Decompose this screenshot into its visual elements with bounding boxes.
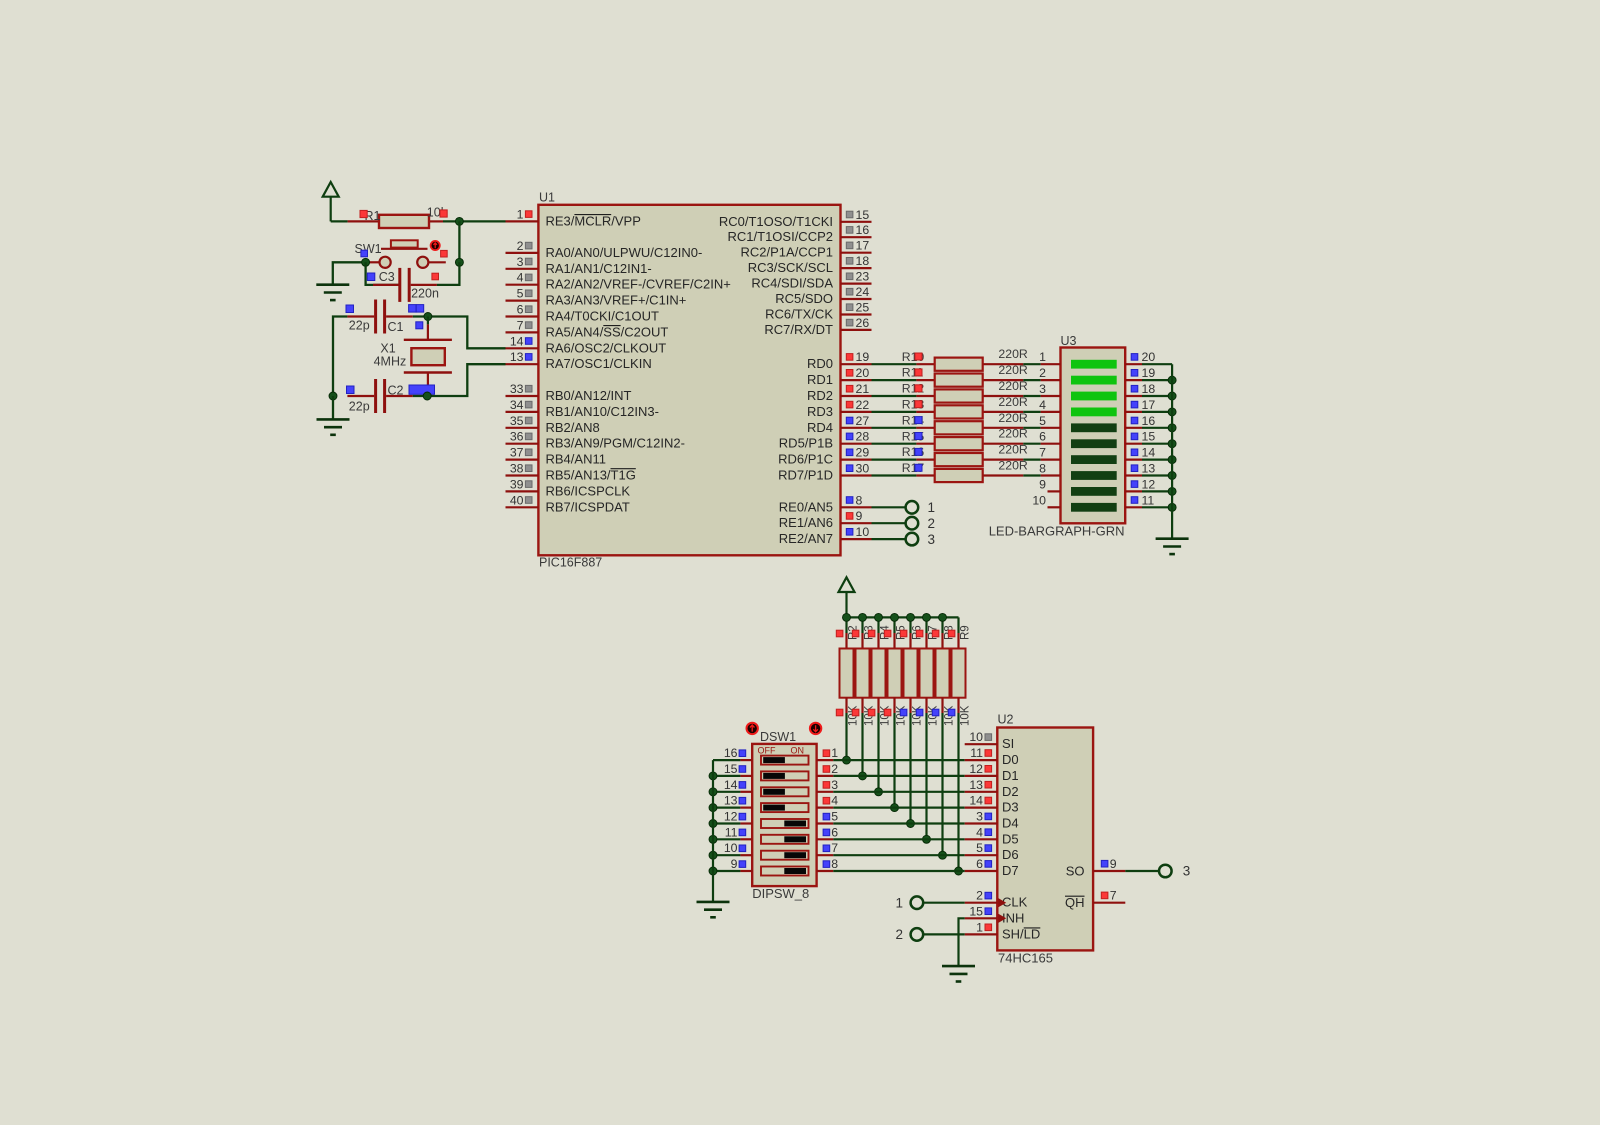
U1 pin 19 RD0 bbox=[807, 350, 872, 371]
U1 pin 6 RA4/T0CKI/C1OUT bbox=[506, 303, 659, 324]
svg-text:6: 6 bbox=[1039, 430, 1046, 444]
wire D0 net DSW1 to U2 bbox=[833, 759, 964, 761]
pin square C3.2 bbox=[432, 273, 439, 280]
svg-text:RB6/ICSPCLK: RB6/ICSPCLK bbox=[546, 483, 631, 498]
U1 pin 28 RD5/P1B bbox=[779, 430, 872, 451]
LED segment 7 off bbox=[1071, 455, 1117, 464]
wire RD4 to R14 bbox=[872, 427, 917, 429]
U1 pin 3 RA1/AN1/C12IN1- bbox=[506, 255, 652, 276]
svg-text:220R: 220R bbox=[998, 363, 1028, 377]
svg-text:15: 15 bbox=[969, 904, 983, 918]
DSW1 switch 3 OFF bbox=[761, 787, 809, 796]
DSW1 pin 5 bbox=[817, 810, 839, 824]
junction U3 ground bus row 19 bbox=[1168, 376, 1176, 384]
interactive down icon DSW1 bbox=[810, 723, 821, 734]
U1 pin 17 RC2/P1A/CCP1 bbox=[741, 239, 872, 260]
junction pull-up bus R7 bbox=[923, 613, 931, 621]
wire U3 pin 16 to ground bus bbox=[1142, 427, 1172, 429]
junction node OSC1 bbox=[423, 392, 431, 400]
svg-text:20: 20 bbox=[1142, 350, 1156, 364]
svg-text:3: 3 bbox=[1183, 864, 1191, 879]
wire R5 to D3 row bbox=[893, 713, 895, 808]
svg-text:CLK: CLK bbox=[1002, 895, 1028, 910]
junction DSW1 ground bus 9 bbox=[709, 867, 717, 875]
svg-text:X1: X1 bbox=[380, 341, 395, 355]
svg-text:21: 21 bbox=[856, 382, 870, 396]
svg-text:25: 25 bbox=[856, 301, 870, 315]
svg-text:3: 3 bbox=[831, 778, 838, 792]
resistor R7 10K bbox=[920, 617, 934, 713]
resistor R3 10K bbox=[856, 617, 870, 713]
svg-text:3: 3 bbox=[976, 810, 983, 824]
pin square R12.1 bbox=[915, 385, 922, 392]
wire U3 pin 20 to ground bus bbox=[1142, 363, 1172, 365]
pin square C3.1 bbox=[367, 273, 375, 281]
junction pull-up bus R3 bbox=[859, 613, 867, 621]
overline QH bbox=[1065, 895, 1085, 897]
svg-text:19: 19 bbox=[1142, 366, 1156, 380]
junction DSW1 ground bus 11 bbox=[709, 835, 717, 843]
wire left bus to ground bbox=[332, 396, 334, 419]
LED segment 9 off bbox=[1071, 487, 1117, 496]
LED segment 6 off bbox=[1071, 439, 1117, 448]
svg-text:RA1/AN1/C12IN1-: RA1/AN1/C12IN1- bbox=[546, 261, 652, 276]
svg-text:C3: C3 bbox=[379, 270, 395, 284]
wire D6 net DSW1 to U2 bbox=[833, 854, 964, 856]
pin square X1.2b bbox=[416, 322, 423, 329]
wire D7 net DSW1 to U2 bbox=[833, 870, 964, 872]
junction DSW1 ground bus 15 bbox=[709, 772, 717, 780]
svg-text:1: 1 bbox=[1039, 350, 1046, 364]
svg-text:18: 18 bbox=[1142, 382, 1156, 396]
wire SO to terminal 3 bbox=[1125, 870, 1158, 872]
junction node OSC2 bbox=[424, 313, 432, 321]
svg-text:33: 33 bbox=[510, 382, 524, 396]
junction DSW1 ground bus 13 bbox=[709, 804, 717, 812]
svg-text:10: 10 bbox=[724, 841, 738, 855]
wire 10K pull-up bus bbox=[847, 616, 959, 618]
U2 pin 2 CLK bbox=[965, 889, 1028, 910]
wire SW1 left to ground bbox=[333, 262, 366, 284]
svg-text:R9: R9 bbox=[959, 625, 971, 640]
U1 pin 35 RB2/AN8 bbox=[506, 414, 600, 435]
svg-text:3: 3 bbox=[1039, 382, 1046, 396]
DSW1 pin 1 bbox=[817, 746, 839, 760]
crystal X1 bbox=[404, 317, 452, 397]
U1 pin 20 RD1 bbox=[807, 366, 872, 387]
pin square R16.1 bbox=[915, 448, 922, 455]
svg-text:RD1: RD1 bbox=[807, 372, 833, 387]
U1 pin 39 RB6/ICSPCLK bbox=[506, 477, 631, 498]
U1 pin 30 RD7/P1D bbox=[778, 462, 871, 483]
U1 pin 1 RE3/MCLR/VPP bbox=[506, 207, 641, 228]
svg-text:2: 2 bbox=[976, 889, 983, 903]
svg-text:3: 3 bbox=[517, 255, 524, 269]
svg-text:38: 38 bbox=[510, 462, 524, 476]
svg-text:13: 13 bbox=[724, 794, 738, 808]
wire RD1 to R11 bbox=[872, 379, 917, 381]
U2 pin 12 D1 bbox=[965, 762, 1019, 783]
svg-text:1: 1 bbox=[976, 920, 983, 934]
DSW1 pin 10 bbox=[713, 841, 752, 855]
svg-text:220R: 220R bbox=[998, 379, 1028, 393]
wire INH to ground bbox=[959, 918, 965, 966]
svg-text:220R: 220R bbox=[998, 459, 1028, 473]
svg-text:17: 17 bbox=[1142, 398, 1156, 412]
svg-text:16: 16 bbox=[856, 223, 870, 237]
wire RD3 to R13 bbox=[872, 411, 917, 413]
svg-text:DSW1: DSW1 bbox=[760, 730, 796, 744]
overline MCLR bbox=[574, 214, 611, 216]
wire RD0 to R10 bbox=[872, 363, 917, 365]
svg-text:RC6/TX/CK: RC6/TX/CK bbox=[765, 307, 833, 322]
svg-text:RB4/AN11: RB4/AN11 bbox=[546, 452, 606, 467]
U3 pin 11 bbox=[1125, 493, 1154, 507]
svg-text:ON: ON bbox=[791, 746, 805, 756]
svg-text:220R: 220R bbox=[998, 395, 1028, 409]
wire terminal 1 to CLK bbox=[924, 902, 965, 904]
svg-text:RB0/AN12/INT: RB0/AN12/INT bbox=[546, 388, 632, 403]
U1 pin 26 RC7/RX/DT bbox=[764, 316, 871, 337]
resistor R9 10K bbox=[952, 617, 966, 713]
terminal 2 bbox=[906, 516, 935, 531]
pin square R7.bottom bbox=[916, 709, 923, 716]
DSW1 pin 4 bbox=[817, 794, 839, 808]
svg-text:28: 28 bbox=[856, 430, 870, 444]
svg-text:DIPSW_8: DIPSW_8 bbox=[752, 886, 809, 901]
wire R6 to D4 row bbox=[909, 713, 911, 824]
svg-text:D3: D3 bbox=[1002, 800, 1019, 815]
wire U3 pin 12 to ground bus bbox=[1142, 490, 1172, 492]
pin square R1.1 bbox=[360, 210, 367, 217]
DSW1 switch 1 OFF bbox=[761, 756, 809, 765]
svg-text:9: 9 bbox=[1110, 857, 1117, 871]
junction D3 node bbox=[891, 804, 899, 812]
terminal 1 bbox=[906, 500, 935, 515]
pin square R1.2 bbox=[440, 210, 447, 217]
svg-text:2: 2 bbox=[831, 762, 838, 776]
power +5V arrow bbox=[323, 182, 339, 221]
U1 pin 5 RA3/AN3/VREF+/C1IN+ bbox=[506, 287, 687, 308]
interactive up icon DSW1 bbox=[747, 723, 758, 734]
DSW1 switch 4 OFF bbox=[761, 803, 809, 812]
svg-text:4: 4 bbox=[517, 271, 524, 285]
U3 pin 3 bbox=[1039, 382, 1060, 396]
U2 pin 14 D3 bbox=[965, 794, 1019, 815]
svg-text:U3: U3 bbox=[1061, 334, 1077, 348]
svg-text:39: 39 bbox=[510, 477, 524, 491]
svg-text:20: 20 bbox=[856, 366, 870, 380]
svg-text:6: 6 bbox=[517, 303, 524, 317]
svg-text:22p: 22p bbox=[349, 400, 370, 414]
terminal 1 bbox=[895, 895, 923, 910]
svg-text:D1: D1 bbox=[1002, 768, 1019, 783]
DSW1 pin 15 bbox=[713, 762, 752, 776]
wire C2 to OSC1 node and pin 13 bbox=[413, 364, 506, 396]
svg-text:RA5/AN4/SS/C2OUT: RA5/AN4/SS/C2OUT bbox=[546, 324, 669, 339]
U1 pin 14 RA6/OSC2/CLKOUT bbox=[506, 334, 667, 355]
pin square X1.1 bbox=[416, 305, 424, 313]
svg-text:11: 11 bbox=[725, 825, 738, 839]
svg-text:22p: 22p bbox=[349, 318, 370, 332]
resistor R11 220R bbox=[916, 374, 1023, 387]
LED segment 5 off bbox=[1071, 423, 1117, 432]
svg-text:RA7/OSC1/CLKIN: RA7/OSC1/CLKIN bbox=[546, 356, 652, 371]
wire RE pin to terminal 1 bbox=[872, 506, 906, 508]
wire U3 pin 14 to ground bus bbox=[1142, 459, 1172, 461]
junction pull-up bus R5 bbox=[891, 613, 899, 621]
U3 pin 1 bbox=[1039, 350, 1060, 364]
svg-text:7: 7 bbox=[1110, 889, 1117, 903]
junction pull-up bus R8 bbox=[939, 613, 947, 621]
svg-text:40: 40 bbox=[510, 493, 524, 507]
DSW1 switch 6 ON bbox=[761, 835, 809, 844]
pin square R8.bottom bbox=[932, 709, 939, 716]
junction D5 node bbox=[923, 835, 931, 843]
wire R16 to U3 pin 7 bbox=[1023, 459, 1040, 461]
svg-text:5: 5 bbox=[976, 841, 983, 855]
U1 pin 24 RC5/SDO bbox=[775, 285, 871, 306]
svg-text:U2: U2 bbox=[998, 713, 1014, 727]
wire U3 pin 13 to ground bus bbox=[1142, 474, 1172, 476]
DIP switch DSW1 body bbox=[752, 744, 816, 886]
svg-text:RA0/AN0/ULPWU/C12IN0-: RA0/AN0/ULPWU/C12IN0- bbox=[546, 245, 703, 260]
svg-text:PIC16F887: PIC16F887 bbox=[539, 556, 602, 570]
svg-text:4: 4 bbox=[976, 825, 983, 839]
DSW1 pin 2 bbox=[817, 762, 839, 776]
wire R17 to U3 pin 8 bbox=[1023, 474, 1040, 476]
U1 pin 4 RA2/AN2/VREF-/CVREF/C2IN+ bbox=[506, 271, 731, 292]
ground bbox=[942, 966, 975, 981]
pin square C2.2 and X1 bottom bbox=[409, 385, 435, 394]
LED segment 4 on bbox=[1071, 408, 1117, 417]
overline SS bbox=[603, 325, 620, 327]
pin square C2.1 bbox=[347, 386, 355, 394]
U3 pin 12 bbox=[1125, 477, 1155, 491]
svg-text:2: 2 bbox=[895, 927, 903, 942]
DSW1 pin 13 bbox=[713, 794, 752, 808]
overline T1G bbox=[611, 468, 636, 470]
junction U3 ground bus row 16 bbox=[1168, 424, 1176, 432]
U1 pin 37 RB4/AN11 bbox=[506, 446, 606, 467]
wire R8 to D6 row bbox=[941, 713, 943, 855]
junction DSW1 ground bus 10 bbox=[709, 851, 717, 859]
svg-text:RB2/AN8: RB2/AN8 bbox=[546, 420, 600, 435]
svg-text:D2: D2 bbox=[1002, 784, 1019, 799]
svg-text:RD6/P1C: RD6/P1C bbox=[778, 452, 833, 467]
svg-text:17: 17 bbox=[856, 239, 870, 253]
svg-text:1: 1 bbox=[517, 207, 524, 221]
wire DSW1 ground bus bbox=[712, 760, 714, 902]
DSW1 switch 5 ON bbox=[761, 819, 809, 828]
U2 pin 4 D5 bbox=[965, 825, 1019, 846]
resistor R16 220R bbox=[916, 453, 1023, 466]
U3 pin 8 bbox=[1039, 462, 1060, 476]
wire RD7 to R17 bbox=[872, 474, 917, 476]
junction U3 ground bus row 18 bbox=[1168, 392, 1176, 400]
wire terminal 2 to SH/LD bbox=[924, 933, 965, 935]
wire C3 right to SW1 right node bbox=[411, 262, 460, 285]
LED segment 3 on bbox=[1071, 392, 1117, 401]
wire D1 net DSW1 to U2 bbox=[833, 775, 964, 777]
pin square R2.top bbox=[836, 630, 843, 637]
U3 pin 7 bbox=[1039, 446, 1060, 460]
terminal 2 bbox=[895, 927, 923, 942]
wire OSC1 net left bus bbox=[333, 317, 347, 397]
LED segment 10 off bbox=[1071, 503, 1117, 512]
svg-text:RB7/ICSPDAT: RB7/ICSPDAT bbox=[546, 499, 630, 514]
ground bbox=[697, 902, 730, 917]
resistor R2 10K bbox=[840, 617, 854, 713]
svg-text:220R: 220R bbox=[998, 411, 1028, 425]
svg-text:RD4: RD4 bbox=[807, 420, 833, 435]
U3 pin 13 bbox=[1125, 462, 1155, 476]
pin square R13.1 bbox=[915, 401, 922, 408]
svg-text:26: 26 bbox=[856, 316, 870, 330]
wire D2 net DSW1 to U2 bbox=[833, 791, 964, 793]
resistor R6 10K bbox=[904, 617, 918, 713]
wire SW1 left node down to C3 bbox=[366, 262, 400, 285]
svg-text:RC7/RX/DT: RC7/RX/DT bbox=[764, 322, 833, 337]
U3 pin 17 bbox=[1125, 398, 1155, 412]
junction node MCLR bbox=[455, 217, 463, 225]
svg-text:RC1/T1OSI/CCP2: RC1/T1OSI/CCP2 bbox=[728, 229, 833, 244]
svg-text:RD2: RD2 bbox=[807, 388, 833, 403]
pin square R17.1 bbox=[915, 464, 922, 471]
svg-text:RC5/SDO: RC5/SDO bbox=[775, 291, 833, 306]
svg-text:16: 16 bbox=[724, 746, 738, 760]
svg-text:18: 18 bbox=[856, 254, 870, 268]
svg-text:14: 14 bbox=[724, 778, 738, 792]
pin square R9.top bbox=[948, 630, 955, 637]
junction U3 ground bus row 14 bbox=[1168, 456, 1176, 464]
LED segment 8 off bbox=[1071, 471, 1117, 480]
wire RD6 to R16 bbox=[872, 459, 917, 461]
DSW1 pin 8 bbox=[817, 857, 839, 871]
svg-text:SH/LD: SH/LD bbox=[1002, 926, 1040, 941]
LED segment 2 on bbox=[1071, 376, 1117, 385]
svg-text:12: 12 bbox=[1142, 477, 1156, 491]
svg-text:15: 15 bbox=[724, 762, 738, 776]
wire U3 pin 17 to ground bus bbox=[1142, 411, 1172, 413]
junction U3 ground bus row 15 bbox=[1168, 440, 1176, 448]
resistor R10 220R bbox=[916, 358, 1023, 371]
U1 pin 16 RC1/T1OSI/CCP2 bbox=[728, 223, 872, 244]
U2 pin 13 D2 bbox=[965, 778, 1019, 799]
resistor R1 bbox=[348, 215, 443, 228]
svg-text:6: 6 bbox=[831, 825, 838, 839]
U3 pin 9 bbox=[1039, 477, 1060, 491]
svg-text:D5: D5 bbox=[1002, 831, 1019, 846]
svg-text:220R: 220R bbox=[998, 427, 1028, 441]
svg-text:8: 8 bbox=[831, 857, 838, 871]
junction U3 ground bus row 11 bbox=[1168, 503, 1176, 511]
wire RD5 to R15 bbox=[872, 443, 917, 445]
U2 pin 3 D4 bbox=[965, 810, 1019, 831]
svg-text:C2: C2 bbox=[388, 383, 404, 397]
capacitor C3 bbox=[398, 268, 410, 302]
resistor R13 220R bbox=[916, 405, 1023, 418]
svg-text:RA4/T0CKI/C1OUT: RA4/T0CKI/C1OUT bbox=[546, 309, 659, 324]
U2 pin 1 SH/LD bbox=[965, 920, 1041, 941]
svg-text:D4: D4 bbox=[1002, 816, 1019, 831]
svg-text:5: 5 bbox=[831, 810, 838, 824]
pin square R9.bottom bbox=[948, 709, 955, 716]
junction U3 ground bus row 13 bbox=[1168, 472, 1176, 480]
U2 pin 9 SO bbox=[1066, 857, 1126, 879]
svg-text:U1: U1 bbox=[539, 191, 555, 205]
svg-text:12: 12 bbox=[969, 762, 983, 776]
terminal 3 bbox=[1159, 864, 1190, 879]
svg-text:RE3/MCLR/VPP: RE3/MCLR/VPP bbox=[546, 213, 641, 228]
junction pull-up bus R2 bbox=[843, 613, 851, 621]
DSW1 pin 14 bbox=[713, 778, 752, 792]
svg-text:RE0/AN5: RE0/AN5 bbox=[779, 499, 833, 514]
pin square R8.top bbox=[932, 630, 939, 637]
wire R2 to D0 row bbox=[845, 713, 847, 760]
wire R15 to U3 pin 6 bbox=[1023, 443, 1040, 445]
junction node SW1 left bbox=[362, 258, 370, 266]
svg-text:RE1/AN6: RE1/AN6 bbox=[779, 515, 833, 530]
junction D4 node bbox=[907, 820, 915, 828]
svg-text:10: 10 bbox=[856, 525, 870, 539]
svg-text:22: 22 bbox=[856, 398, 870, 412]
svg-text:7: 7 bbox=[517, 318, 524, 332]
svg-text:D7: D7 bbox=[1002, 863, 1019, 878]
wire U3 pin 18 to ground bus bbox=[1142, 395, 1172, 397]
svg-text:7: 7 bbox=[1039, 446, 1046, 460]
DSW1 pin 6 bbox=[817, 825, 839, 839]
wire U3 ground bus bbox=[1171, 364, 1173, 539]
DSW1 pin 12 bbox=[713, 810, 752, 824]
svg-text:6: 6 bbox=[976, 857, 983, 871]
wire U3 pin 11 to ground bus bbox=[1142, 506, 1172, 508]
terminal 3 bbox=[906, 532, 935, 547]
svg-text:14: 14 bbox=[1142, 446, 1156, 460]
IC U1 PIC16F887 body bbox=[538, 205, 840, 556]
wire R3 to D1 row bbox=[861, 713, 863, 776]
pin square R3.bottom bbox=[852, 709, 859, 716]
wire MCLR node down to SW1 bbox=[458, 221, 460, 262]
wire C1 to OSC2 node bbox=[413, 317, 506, 349]
svg-text:RC0/T1OSO/T1CKI: RC0/T1OSO/T1CKI bbox=[719, 214, 833, 229]
DSW1 switch 2 OFF bbox=[761, 771, 809, 780]
svg-text:9: 9 bbox=[1039, 477, 1046, 491]
pin square R6.top bbox=[900, 630, 907, 637]
U3 pin 14 bbox=[1125, 446, 1155, 460]
U2 pin 15 INH bbox=[965, 904, 1025, 925]
wire R1 to U1 pin1 (MCLR node) bbox=[443, 220, 506, 222]
U1 pin 15 RC0/T1OSO/T1CKI bbox=[719, 208, 872, 229]
svg-text:11: 11 bbox=[970, 746, 983, 760]
U1 pin 29 RD6/P1C bbox=[778, 446, 871, 467]
svg-text:RD7/P1D: RD7/P1D bbox=[778, 468, 833, 483]
svg-text:7: 7 bbox=[831, 841, 838, 855]
svg-text:SI: SI bbox=[1002, 736, 1014, 751]
U1 pin 38 RB5/AN13/T1G bbox=[506, 462, 636, 483]
U3 pin 6 bbox=[1039, 430, 1060, 444]
wire R7 to D5 row bbox=[925, 713, 927, 839]
pin square C1.1 bbox=[346, 305, 354, 313]
svg-text:13: 13 bbox=[969, 778, 983, 792]
svg-text:24: 24 bbox=[856, 285, 870, 299]
svg-text:3: 3 bbox=[928, 532, 936, 547]
ground bbox=[1156, 539, 1189, 554]
wire U3 pin 19 to ground bus bbox=[1142, 379, 1172, 381]
svg-text:74HC165: 74HC165 bbox=[998, 951, 1053, 966]
U1 pin 21 RD2 bbox=[807, 382, 872, 403]
overline LD bbox=[1024, 927, 1041, 929]
